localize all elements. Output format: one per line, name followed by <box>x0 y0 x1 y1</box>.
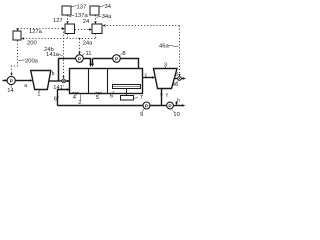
svg-text:137: 137 <box>77 4 87 10</box>
svg-text:24a: 24a <box>83 40 93 46</box>
svg-text:4: 4 <box>73 95 77 101</box>
svg-text:127: 127 <box>53 18 63 24</box>
svg-text:141′: 141′ <box>53 85 64 91</box>
svg-text:9: 9 <box>140 112 143 118</box>
svg-text:6″: 6″ <box>54 96 59 102</box>
svg-text:7: 7 <box>140 95 143 101</box>
svg-text:34: 34 <box>105 4 112 10</box>
svg-text:127a: 127a <box>29 29 43 35</box>
svg-text:h: h <box>177 98 180 104</box>
svg-text:14: 14 <box>7 88 14 94</box>
svg-text:c: c <box>145 73 148 79</box>
svg-text:3: 3 <box>164 63 167 69</box>
svg-text:5: 5 <box>96 95 99 101</box>
svg-text:11: 11 <box>86 51 92 57</box>
svg-text:10: 10 <box>173 112 179 118</box>
svg-text:141a: 141a <box>46 52 60 58</box>
svg-text:f: f <box>166 93 168 99</box>
svg-text:b: b <box>52 71 55 77</box>
svg-text:200: 200 <box>27 40 37 46</box>
svg-text:2: 2 <box>78 100 81 106</box>
svg-text:d: d <box>175 72 178 78</box>
svg-text:6′: 6′ <box>110 93 114 99</box>
svg-text:8: 8 <box>122 51 125 57</box>
svg-text:34a: 34a <box>102 14 112 20</box>
svg-text:a: a <box>24 83 27 89</box>
svg-text:46a: 46a <box>159 43 169 49</box>
svg-text:46: 46 <box>172 82 178 88</box>
svg-text:24: 24 <box>83 19 90 25</box>
svg-text:1: 1 <box>37 92 40 98</box>
svg-text:200a: 200a <box>25 58 39 64</box>
